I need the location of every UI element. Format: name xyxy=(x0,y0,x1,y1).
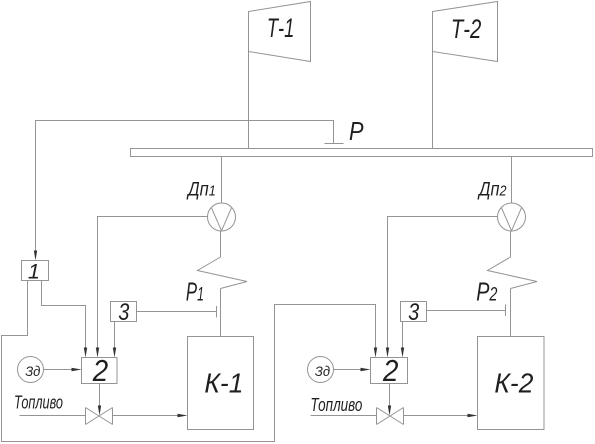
svg-text:3: 3 xyxy=(408,299,419,326)
arrow into box 2 left xyxy=(72,368,82,371)
svg-text:Дп2: Дп2 xyxy=(477,178,507,200)
wire: T-2 to steam header xyxy=(432,52,434,149)
wire: zigzag to K-1 xyxy=(220,289,222,337)
flow sensor Dp2 V element xyxy=(501,208,521,231)
flow sensor Dp1 V element xyxy=(211,208,231,231)
svg-text:Т-1: Т-1 xyxy=(267,13,295,43)
svg-text:Р: Р xyxy=(349,116,364,146)
svg-text:К-1: К-1 xyxy=(204,368,243,399)
arrow into valve 2 xyxy=(388,406,391,416)
arrow into valve 1 xyxy=(98,406,101,416)
svg-text:1: 1 xyxy=(28,260,40,284)
svg-text:Зд: Зд xyxy=(315,363,330,379)
pressure tap P1 dash xyxy=(216,306,218,318)
fuel wire valve 2 to K-2 xyxy=(404,415,468,417)
wire: box 3-2 to box 2-2 xyxy=(402,322,404,348)
wire: box 1 to box 2 (boiler 1) xyxy=(42,281,86,348)
wire: box 2-2 to valve 2 xyxy=(389,384,391,406)
wire: Zd2 to box 2-2 xyxy=(334,369,361,371)
svg-text:Т-2: Т-2 xyxy=(451,14,482,44)
box 2 (fuel regulator boiler 1) xyxy=(82,358,118,384)
wire: header to Dp2 sensor xyxy=(511,157,513,204)
arrow into box 2 top (from Dp1) xyxy=(96,348,99,358)
wire: box 3-2 to P2 tap xyxy=(427,310,506,312)
wire: box 3 to P1 tap xyxy=(137,311,217,313)
wire: P tap to box 1 xyxy=(36,121,334,251)
setpoint Zd2 circle xyxy=(308,357,334,383)
turbine T-1 xyxy=(249,2,311,62)
wire: header to Dp1 sensor xyxy=(221,157,223,204)
wire: box 2 to valve 1 xyxy=(99,384,101,406)
wire: box 1 wrap-around to box 2 of boiler 2 xyxy=(2,281,376,442)
steam header bar xyxy=(131,149,593,157)
arrow into K-2 xyxy=(468,414,478,417)
arrow into box 2-2 left xyxy=(361,368,371,371)
wire: zigzag 2 to K-2 xyxy=(510,289,512,337)
wire: Dp1 to zigzag xyxy=(220,231,222,257)
zigzag steam lead boiler 2 xyxy=(488,257,538,289)
flow sensor Dp1 circle xyxy=(208,203,236,231)
turbine T-2 xyxy=(433,2,498,62)
arrow into box 1 xyxy=(34,251,37,261)
pressure tap P dash xyxy=(325,143,344,145)
boiler K-2 xyxy=(478,337,545,430)
fuel valve 2 xyxy=(377,408,404,425)
svg-text:Дп1: Дп1 xyxy=(186,178,215,200)
box 3-2 (boiler 2 pressure sensor) xyxy=(401,302,427,322)
zigzag steam lead boiler 1 xyxy=(198,257,248,289)
pressure tap P2 dash xyxy=(505,305,507,317)
wire: Dp2 to zigzag 2 xyxy=(510,231,512,257)
setpoint Zd1 circle xyxy=(18,357,44,383)
arrow into box 2 top (from box 3) xyxy=(113,348,116,358)
svg-text:2: 2 xyxy=(382,354,398,388)
wire: T-1 to steam header xyxy=(248,52,250,149)
svg-text:Топливо: Топливо xyxy=(14,393,63,413)
svg-text:2: 2 xyxy=(92,354,108,388)
svg-text:Зд: Зд xyxy=(25,363,40,379)
svg-text:3: 3 xyxy=(118,299,129,326)
arrow into box 2-2 top (from box 1) xyxy=(374,348,377,358)
wire: Zd1 to box 2 xyxy=(44,369,72,371)
arrow into K-1 xyxy=(178,414,188,417)
fuel valve 1 xyxy=(86,408,113,425)
svg-text:Р1: Р1 xyxy=(186,276,204,306)
box 1 (pressure corrector) xyxy=(22,261,49,281)
fuel wire into valve 1 xyxy=(20,415,86,417)
fuel wire valve 1 to K-1 xyxy=(113,415,178,417)
fuel wire into valve 2 xyxy=(311,415,377,417)
box 3 (boiler 1 pressure sensor) xyxy=(111,302,137,322)
boiler K-1 xyxy=(188,337,254,430)
box 2-2 (fuel regulator boiler 2) xyxy=(371,358,408,384)
svg-text:Р2: Р2 xyxy=(476,276,498,306)
svg-text:Топливо: Топливо xyxy=(310,395,362,415)
flow sensor Dp2 circle xyxy=(498,203,526,231)
wire: Dp1 to box 2 xyxy=(98,217,208,348)
wire: Dp2 to box 2-2 xyxy=(388,217,498,348)
arrow into box 2 top (from box 1) xyxy=(84,348,87,358)
arrow into box 2-2 top (from Dp2) xyxy=(386,348,389,358)
svg-text:К-2: К-2 xyxy=(494,368,533,399)
arrow into box 2-2 top (from box 3-2) xyxy=(401,348,404,358)
wire: box 3 to box 2 xyxy=(114,322,116,348)
